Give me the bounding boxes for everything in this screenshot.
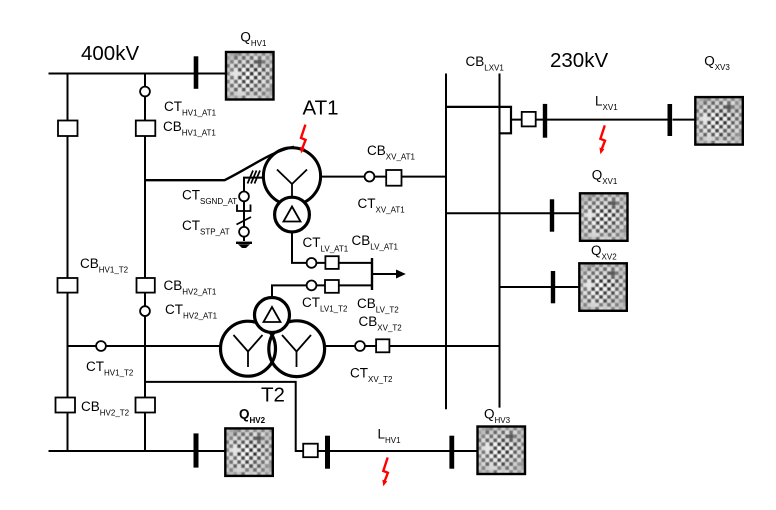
load Q_XV1 bbox=[580, 193, 628, 241]
AT1 delta symbol bbox=[284, 207, 301, 222]
hash marks on neutral tap bbox=[248, 171, 261, 184]
ground symbol AT1 neutral bbox=[236, 242, 252, 244]
wire T2 HV lead bbox=[68, 345, 222, 347]
wire Q_XV1 branch bbox=[446, 212, 580, 214]
load Q_HV3 bbox=[478, 427, 526, 475]
L_HV1 CB square bbox=[303, 444, 318, 458]
transformer T2 primary circle bbox=[221, 321, 276, 376]
CB_LV_AT1 square bbox=[325, 256, 338, 269]
earthing switch blade bbox=[237, 217, 252, 225]
earthing switch bracket bbox=[237, 205, 251, 212]
L_XV1 bar left bbox=[543, 104, 547, 138]
transformer AT1 main circle bbox=[263, 148, 320, 205]
load Q_HV1 bbox=[226, 52, 274, 100]
Q_HV2 terminal bar bbox=[194, 433, 199, 467]
CB_HV1_T2 square bbox=[58, 278, 78, 293]
Q_HV1 terminal bar bbox=[194, 56, 199, 89]
fault bolt on L_HV1 bbox=[382, 458, 388, 487]
wire Q_XV2 branch bbox=[500, 286, 580, 288]
load Q_XV3 bbox=[695, 97, 743, 145]
fault bolt on L_XV1 bbox=[599, 125, 605, 154]
wire T2 LV1 lead bbox=[272, 285, 372, 297]
CB_HV1_AT1 square V2 bbox=[136, 121, 156, 137]
CT circle CT_XV_T2 bbox=[355, 341, 365, 351]
Q_XV1 terminal bar bbox=[550, 199, 554, 231]
transformer T2 tertiary circle bbox=[255, 298, 290, 333]
CT circle CT_XV_AT1 bbox=[365, 172, 375, 182]
wire AT1 LV lead bbox=[292, 232, 372, 263]
arrowhead LV feeder bbox=[396, 270, 406, 279]
wire LV node bar bbox=[371, 258, 373, 290]
wire CB_LXV1 bus coupler staple bbox=[446, 107, 511, 133]
CT circle CT_HV2_AT1 bbox=[140, 306, 150, 316]
CB_HV1_AT1 square V1 bbox=[58, 121, 78, 137]
L_XV1 CB square bbox=[522, 112, 536, 127]
transformer AT1 tertiary circle bbox=[275, 197, 310, 232]
wire 230kV bus 1 bbox=[445, 74, 447, 410]
wire AT1 neutral tap bbox=[244, 178, 263, 241]
T2 delta symbol bbox=[264, 307, 281, 322]
wire L_HV1 line bbox=[318, 450, 478, 452]
svg-text:AT1: AT1 bbox=[303, 97, 339, 120]
svg-text:T2: T2 bbox=[261, 384, 285, 407]
L_XV1 bar right / Q_XV3 terminal bbox=[668, 104, 673, 136]
T2 wye symbol primary bbox=[234, 335, 263, 367]
CT circle CT_HV1_T2 bbox=[96, 341, 106, 351]
wire feeder V2 bbox=[144, 74, 146, 452]
CT circle CT_STP_AT bbox=[239, 227, 249, 237]
L_HV1 bar right / Q_HV3 terminal bbox=[449, 436, 454, 469]
T2 wye symbol secondary bbox=[282, 335, 311, 367]
svg-text:230kV: 230kV bbox=[550, 49, 608, 72]
wire T2 XV lead bbox=[324, 345, 499, 347]
wire 400kV bottom bus bbox=[49, 450, 226, 452]
CB_HV2_AT1 square bbox=[137, 278, 155, 293]
wire L_XV1 line bbox=[511, 119, 695, 121]
CB_HV2_T2 square V1 bbox=[56, 398, 76, 413]
CB_HV2_T2 square V2 bbox=[136, 398, 156, 413]
svg-text:400kV: 400kV bbox=[81, 42, 139, 65]
load Q_XV2 bbox=[579, 263, 627, 311]
Q_XV2 terminal bar bbox=[551, 271, 555, 303]
CT circle CT_LV1_T2 bbox=[307, 281, 317, 291]
wire AT1 HV lead with curve bbox=[145, 147, 294, 180]
CB_LV_T2 square bbox=[325, 280, 339, 293]
wire LV feeder arrow line bbox=[372, 273, 397, 275]
wire T2 HV2 downlead bbox=[145, 382, 303, 451]
fault bolt at AT1 bbox=[300, 125, 306, 154]
L_HV1 bar left bbox=[325, 436, 330, 469]
wire AT1 XV lead bbox=[321, 176, 446, 178]
wire 230kV bus 2 bbox=[499, 74, 501, 408]
load Q_HV2 bbox=[225, 428, 272, 476]
wire left feeder V1 bbox=[67, 74, 69, 452]
CB_XV_AT1 square bbox=[386, 170, 401, 186]
AT1 wye symbol bbox=[277, 170, 307, 199]
CB_XV_T2 square bbox=[376, 339, 389, 352]
CT circle CT_HV1_AT1 bbox=[140, 87, 150, 97]
wire 400kV top bus bbox=[49, 73, 227, 75]
transformer T2 secondary circle bbox=[269, 321, 325, 377]
CT circle CT_SGND_AT bbox=[239, 192, 249, 202]
CT circle CT_LV_AT1 bbox=[307, 258, 317, 268]
